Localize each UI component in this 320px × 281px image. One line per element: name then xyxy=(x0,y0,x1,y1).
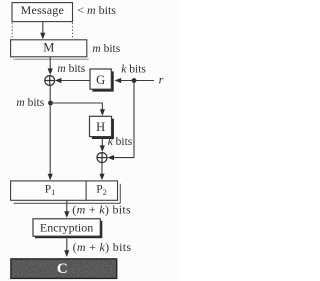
svg-text:(m + k) bits: (m + k) bits xyxy=(72,203,131,217)
arrowhead into xor1 xyxy=(48,68,53,75)
box P1 P2 xyxy=(11,181,121,203)
svg-text:Encryption: Encryption xyxy=(40,221,93,235)
svg-text:k bits: k bits xyxy=(108,136,133,148)
arrowhead into xor1 right xyxy=(55,78,62,83)
arrowhead into C xyxy=(64,250,69,257)
arrowhead into P2 xyxy=(99,174,104,181)
wire Message to M xyxy=(42,22,44,34)
box H xyxy=(90,116,114,139)
arrowhead into Encryption xyxy=(64,211,69,218)
svg-text:Message: Message xyxy=(21,3,64,17)
arrowhead into G xyxy=(115,78,122,83)
box Message xyxy=(12,3,73,22)
box G xyxy=(90,69,114,92)
arrowhead into M xyxy=(40,33,45,40)
wire xor1 down to P1 xyxy=(49,85,51,174)
shadow of box M xyxy=(13,58,88,60)
wire H to xor2 xyxy=(101,137,103,147)
wire junction r down and left to xor2 xyxy=(111,81,135,158)
dotted guide line right xyxy=(72,23,74,39)
svg-text:G: G xyxy=(96,73,105,87)
box C (ciphertext, dark) xyxy=(11,259,117,279)
arrowhead into xor2 top xyxy=(100,145,105,152)
svg-text:r: r xyxy=(159,73,164,87)
svg-text:M: M xyxy=(43,41,54,55)
divider P1/P2 xyxy=(85,181,87,200)
box Encryption xyxy=(33,219,102,238)
wire r to G xyxy=(121,80,155,82)
xor node 2 xyxy=(97,153,107,163)
svg-text:< m bits: < m bits xyxy=(77,3,116,17)
svg-text:k bits: k bits xyxy=(121,63,146,75)
svg-text:C: C xyxy=(57,261,68,277)
wire G to xor1 xyxy=(61,80,90,82)
arrowhead into P1 xyxy=(48,174,53,181)
junction dot below xor1 xyxy=(48,101,53,106)
junction dot on r line xyxy=(132,78,137,83)
xor node 1 xyxy=(45,76,55,86)
svg-text:(m + k) bits: (m + k) bits xyxy=(73,240,132,254)
wire junction to H xyxy=(51,103,103,111)
box M xyxy=(11,40,87,57)
wire M to xor1 xyxy=(49,57,51,70)
svg-text:m bits: m bits xyxy=(57,63,85,75)
svg-text:H: H xyxy=(96,120,105,134)
wire Encryption to C xyxy=(66,238,68,251)
wire xor2 down to P2 xyxy=(101,163,103,175)
svg-text:m bits: m bits xyxy=(92,43,120,55)
dotted guide line left xyxy=(11,23,13,39)
svg-text:m bits: m bits xyxy=(16,97,44,109)
arrowhead into xor2 right xyxy=(107,155,114,160)
arrowhead into H xyxy=(100,109,105,116)
wire P to Encryption xyxy=(66,200,68,212)
